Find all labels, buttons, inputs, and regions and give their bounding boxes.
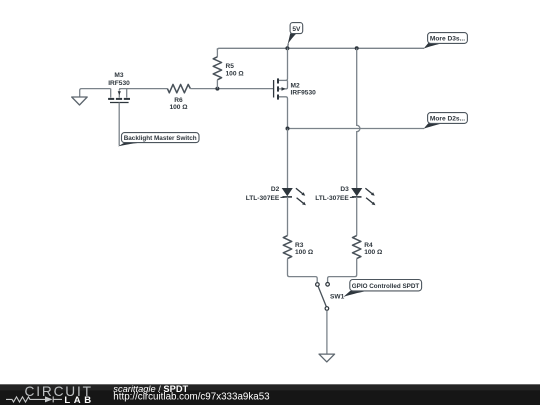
svg-text:100 Ω: 100 Ω bbox=[226, 71, 245, 78]
svg-text:100 Ω: 100 Ω bbox=[364, 249, 383, 256]
svg-text:More D2s...: More D2s... bbox=[430, 116, 465, 123]
wire top rail bbox=[217, 48, 424, 50]
wire switch pole to ground bbox=[326, 310, 328, 354]
svg-text:http://circuitlab.com/c97x333a: http://circuitlab.com/c97x333a9ka53 bbox=[113, 392, 270, 403]
transistor M3 bbox=[108, 89, 130, 103]
wire rail2 M2 drain to More D2s bbox=[288, 128, 425, 130]
label R6 100Ω bbox=[169, 97, 188, 111]
flag GPIO Controlled SPDT bbox=[343, 280, 421, 298]
label M3 IRF530 bbox=[108, 72, 130, 87]
svg-text:More D3s...: More D3s... bbox=[430, 36, 465, 43]
LED D2 bbox=[282, 188, 306, 205]
wire R6 to M2 gate bbox=[190, 88, 273, 90]
LED D3 bbox=[351, 188, 375, 205]
svg-text:LTL-307EE: LTL-307EE bbox=[315, 195, 349, 202]
flag More D3s bbox=[424, 33, 468, 49]
wire D3 rail with hop over rail2 bbox=[357, 48, 360, 188]
svg-text:D2: D2 bbox=[271, 186, 280, 193]
svg-text:SW1: SW1 bbox=[330, 294, 345, 301]
label R4 100Ω bbox=[364, 242, 383, 256]
svg-text:D3: D3 bbox=[340, 186, 349, 193]
leader D2 bbox=[280, 196, 284, 198]
wire M3 gate to note bbox=[118, 103, 120, 146]
resistor R3 bbox=[283, 236, 291, 259]
svg-text:R3: R3 bbox=[295, 242, 304, 249]
svg-text:R4: R4 bbox=[364, 242, 373, 249]
CircuitLab logo doodle resistor+diode bbox=[6, 396, 62, 402]
junction 5V node bbox=[285, 46, 289, 50]
svg-text:Backlight Master Switch: Backlight Master Switch bbox=[124, 135, 197, 142]
wire ground to M3 drain bbox=[80, 89, 111, 97]
svg-text:100 Ω: 100 Ω bbox=[169, 104, 188, 111]
ground GND1 bbox=[72, 97, 88, 105]
resistor R6 bbox=[167, 84, 190, 92]
label R5 100Ω bbox=[226, 63, 245, 78]
svg-text:GPIO Controlled SPDT: GPIO Controlled SPDT bbox=[352, 283, 420, 290]
label M2 IRF9530 bbox=[291, 83, 317, 97]
svg-text:R5: R5 bbox=[226, 63, 235, 70]
leader D3 bbox=[350, 196, 354, 198]
switch SW1 bbox=[316, 283, 330, 311]
wire R3 to switch left throw bbox=[288, 259, 318, 283]
footer bar bbox=[0, 384, 540, 405]
svg-text:R6: R6 bbox=[174, 97, 183, 104]
wire M3 source to R6 bbox=[119, 88, 167, 90]
junction D3 rail top bbox=[355, 46, 359, 50]
svg-text:5V: 5V bbox=[292, 26, 301, 33]
label D2 LTL-307EE bbox=[246, 186, 280, 202]
junction rail2 bbox=[286, 127, 290, 131]
flag More D2s bbox=[424, 113, 468, 129]
wire R4 to switch right throw bbox=[328, 259, 357, 283]
svg-text:LAB: LAB bbox=[64, 395, 91, 405]
label D3 LTL-307EE bbox=[315, 186, 349, 202]
resistor R4 bbox=[353, 236, 361, 259]
note flag Backlight Master Switch bbox=[118, 133, 199, 147]
resistor R5 bbox=[213, 48, 221, 88]
wire D2 to R3 bbox=[287, 197, 289, 236]
ground GND2 bbox=[319, 354, 335, 362]
svg-text:IRF9530: IRF9530 bbox=[291, 90, 317, 97]
junction R5 bottom bbox=[215, 87, 219, 91]
power flag 5V bbox=[288, 23, 303, 49]
svg-text:100 Ω: 100 Ω bbox=[295, 249, 314, 256]
wire D3 to R4 bbox=[356, 197, 358, 236]
wire rail2 to D2 anode bbox=[287, 129, 289, 189]
transistor M2 bbox=[274, 48, 288, 128]
svg-text:IRF530: IRF530 bbox=[108, 80, 130, 87]
label R3 100Ω bbox=[295, 242, 314, 256]
svg-text:LTL-307EE: LTL-307EE bbox=[246, 195, 280, 202]
svg-text:M3: M3 bbox=[114, 72, 123, 79]
